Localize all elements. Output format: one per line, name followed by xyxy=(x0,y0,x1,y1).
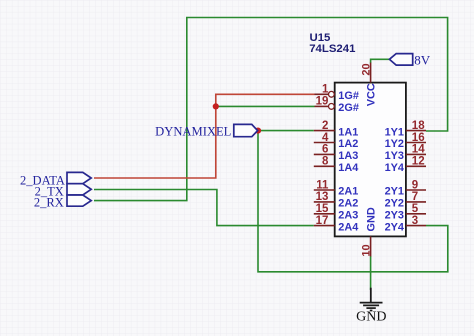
svg-text:2: 2 xyxy=(322,120,328,132)
svg-text:2A3: 2A3 xyxy=(338,210,358,222)
pin 4 xyxy=(314,142,335,144)
wire 2_RX net: port to 1Y1 via top frame xyxy=(94,18,448,201)
pin 9 xyxy=(406,189,426,191)
wire 2_DATA net (red): port to 1G# xyxy=(94,94,315,178)
svg-text:2Y2: 2Y2 xyxy=(385,198,404,210)
pin 13 xyxy=(314,201,335,203)
pin 8 xyxy=(314,165,335,167)
svg-text:VCC: VCC xyxy=(365,83,377,106)
svg-text:2_RX: 2_RX xyxy=(34,195,64,209)
svg-text:1Y2: 1Y2 xyxy=(385,138,404,150)
svg-text:2A2: 2A2 xyxy=(338,198,358,210)
svg-text:2G#: 2G# xyxy=(338,102,359,114)
svg-text:15: 15 xyxy=(316,203,329,215)
svg-text:20: 20 xyxy=(361,63,373,75)
pin 3 xyxy=(406,225,426,227)
svg-text:2A1: 2A1 xyxy=(338,186,358,198)
pin 6 xyxy=(314,153,335,155)
svg-text:18: 18 xyxy=(412,120,425,132)
port DYNAMIXEL xyxy=(234,124,258,136)
IC U15 74LS241 body xyxy=(335,83,406,237)
svg-text:2Y3: 2Y3 xyxy=(385,210,404,222)
svg-text:2Y4: 2Y4 xyxy=(385,221,404,233)
svg-text:1Y1: 1Y1 xyxy=(385,126,404,138)
svg-text:1Y4: 1Y4 xyxy=(385,162,404,174)
pin 18 xyxy=(406,130,426,132)
svg-text:1A3: 1A3 xyxy=(338,150,358,162)
wire DYNAMIXEL net: loop down and right to pin 2Y4 xyxy=(258,131,448,272)
pin names left xyxy=(338,90,359,233)
svg-text:8: 8 xyxy=(322,156,329,168)
pin numbers right xyxy=(412,120,425,227)
junction dot DYNAMIXEL node xyxy=(255,128,261,134)
svg-text:16: 16 xyxy=(412,132,425,144)
svg-text:6: 6 xyxy=(322,144,328,156)
pin 11 xyxy=(314,189,335,191)
pin names right xyxy=(385,126,404,233)
ground symbol xyxy=(360,288,383,311)
wire GND: pin10 to ground symbol xyxy=(370,256,372,290)
pin 12 xyxy=(406,165,426,167)
svg-text:11: 11 xyxy=(316,179,329,191)
svg-text:19: 19 xyxy=(316,96,329,108)
svg-text:1Y3: 1Y3 xyxy=(385,150,404,162)
svg-text:13: 13 xyxy=(316,191,329,203)
wire 2_TX net: port to 2A4 xyxy=(94,190,314,226)
pin 7 xyxy=(406,201,426,203)
port 2_DATA xyxy=(67,172,91,183)
svg-text:5: 5 xyxy=(412,203,419,215)
pin 19 inversion bubble xyxy=(329,104,335,110)
wire 2G# branch (green) xyxy=(216,105,315,107)
pin 14 xyxy=(406,153,426,155)
svg-text:1G#: 1G# xyxy=(338,90,359,102)
svg-text:17: 17 xyxy=(316,215,329,227)
svg-text:10: 10 xyxy=(360,244,372,256)
svg-text:2Y1: 2Y1 xyxy=(385,186,404,198)
svg-text:3: 3 xyxy=(412,215,418,227)
pin 2 xyxy=(314,130,335,132)
svg-text:2A4: 2A4 xyxy=(338,221,358,233)
power port 8V xyxy=(389,54,412,66)
port 2_TX xyxy=(67,184,91,195)
pin 5 xyxy=(406,213,426,215)
pin 1 line xyxy=(315,93,329,95)
svg-text:1A4: 1A4 xyxy=(338,162,358,174)
svg-text:GND: GND xyxy=(365,207,377,231)
svg-text:1: 1 xyxy=(322,84,329,96)
svg-text:8V: 8V xyxy=(414,53,431,68)
svg-text:1A2: 1A2 xyxy=(338,138,358,150)
pin 19 line xyxy=(315,105,329,107)
pin 20 vcc xyxy=(370,63,372,83)
svg-text:DYNAMIXEL: DYNAMIXEL xyxy=(155,125,231,139)
svg-text:12: 12 xyxy=(412,156,425,168)
wire VCC to 8V port xyxy=(371,59,390,63)
wire DYNAMIXEL net: node to pin 1A1 xyxy=(258,130,314,132)
svg-text:9: 9 xyxy=(412,179,418,191)
pin numbers left xyxy=(316,84,329,227)
svg-text:74LS241: 74LS241 xyxy=(309,43,356,55)
junction dot on 2_DATA/2G# xyxy=(213,103,219,109)
pins left maroon stubs xyxy=(314,63,426,257)
svg-text:1A1: 1A1 xyxy=(338,126,358,138)
pin 15 xyxy=(314,213,335,215)
svg-text:GND: GND xyxy=(356,310,386,325)
svg-text:14: 14 xyxy=(412,144,425,156)
svg-text:4: 4 xyxy=(322,132,329,144)
pin 17 xyxy=(314,225,335,227)
pin 10 gnd xyxy=(370,236,372,256)
svg-text:7: 7 xyxy=(412,191,418,203)
port 2_RX xyxy=(67,195,91,206)
pin 1 inversion bubble xyxy=(329,91,335,97)
pin 16 xyxy=(406,142,426,144)
